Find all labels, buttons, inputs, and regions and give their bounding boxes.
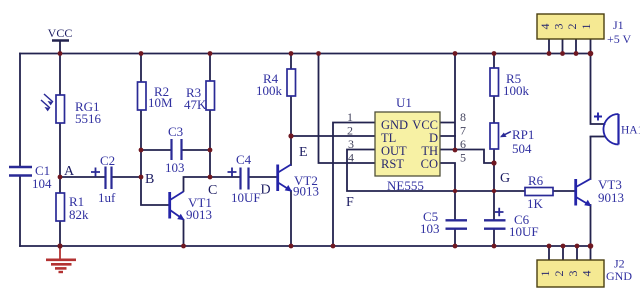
wire pin 1 GND to bottom rail <box>333 123 375 247</box>
svg-text:D: D <box>261 183 271 198</box>
svg-text:C: C <box>208 183 217 198</box>
svg-text:R6: R6 <box>528 173 544 188</box>
svg-text:OUT: OUT <box>381 144 407 158</box>
wire pin 3 OUT to node F rail <box>347 150 525 192</box>
capacitor C4 <box>228 152 261 205</box>
svg-text:U1: U1 <box>396 95 412 110</box>
photoresistor RG1 <box>41 94 102 126</box>
svg-text:B: B <box>145 172 154 187</box>
wire VT1 emitter down <box>183 220 185 246</box>
svg-text:103: 103 <box>165 160 185 175</box>
svg-text:RST: RST <box>381 157 404 171</box>
wire bottom rail <box>20 245 591 247</box>
svg-text:10UF: 10UF <box>231 190 261 205</box>
wire pin 8 VCC stub and riser <box>440 54 455 151</box>
wire VCC stub <box>59 41 61 54</box>
svg-text:4: 4 <box>580 271 594 277</box>
wire speaker feed from top rail <box>591 54 605 125</box>
wire R3 column to node C <box>209 54 211 178</box>
svg-text:5: 5 <box>460 151 466 165</box>
svg-text:TH: TH <box>421 144 438 158</box>
svg-text:504: 504 <box>512 141 532 156</box>
capacitor C2 <box>91 153 116 205</box>
svg-text:2: 2 <box>347 124 353 138</box>
wire speaker lower lead <box>591 136 605 138</box>
resistor R1 <box>56 193 89 222</box>
wire VT3 emitter down <box>590 205 592 246</box>
resistor R4 <box>256 69 296 98</box>
svg-text:G: G <box>500 171 510 186</box>
svg-text:TL: TL <box>381 131 396 145</box>
svg-text:103: 103 <box>420 221 440 236</box>
wire pin 6 TH step <box>440 150 494 164</box>
svg-text:A: A <box>64 164 75 179</box>
resistor R2 <box>138 82 174 110</box>
wire top rail <box>20 53 591 55</box>
wire C5 column <box>454 191 456 246</box>
svg-text:7: 7 <box>460 124 466 138</box>
svg-text:10M: 10M <box>148 95 173 110</box>
wire R6 to VT3 base <box>553 190 574 192</box>
svg-text:NE555: NE555 <box>387 178 424 193</box>
svg-text:9013: 9013 <box>293 184 319 199</box>
svg-text:9013: 9013 <box>598 190 624 205</box>
svg-text:VCC: VCC <box>48 26 73 40</box>
svg-text:J1: J1 <box>613 18 624 32</box>
wire node E to pin 2 <box>291 135 375 137</box>
svg-text:8: 8 <box>460 110 466 124</box>
wire R2 column <box>140 54 142 151</box>
potentiometer RP1 <box>490 123 534 156</box>
svg-text:GND: GND <box>381 118 408 132</box>
wire J1 pin stubs <box>549 39 591 54</box>
wire RG1 column <box>59 54 61 178</box>
wire pin 4 RST to top rail <box>319 54 376 164</box>
connector J2 <box>537 257 632 288</box>
op-amp U1 (NE555 timer block) <box>375 95 440 193</box>
svg-text:2: 2 <box>565 24 579 30</box>
svg-text:C2: C2 <box>100 153 115 168</box>
wire R5 RP1 column <box>493 54 495 164</box>
svg-text:10UF: 10UF <box>509 224 539 239</box>
svg-text:9013: 9013 <box>186 207 212 222</box>
resistor R3 <box>184 81 215 112</box>
capacitor C6 <box>484 208 539 239</box>
svg-text:47K: 47K <box>184 97 207 112</box>
svg-text:GND: GND <box>606 269 632 283</box>
transistor VT1 <box>170 192 212 223</box>
wire pin 5 CO down <box>440 163 455 191</box>
wire VT2 emitter down <box>290 191 292 246</box>
wire J2 pin stubs <box>549 246 591 260</box>
svg-text:104: 104 <box>32 176 52 191</box>
wire pin 7 stub <box>440 135 455 137</box>
wire VT1 collector to node C <box>184 177 211 191</box>
wire node C to C4 to VT2 base <box>210 176 277 178</box>
svg-text:5516: 5516 <box>75 111 102 126</box>
svg-text:VCC: VCC <box>412 118 438 132</box>
svg-text:HA1: HA1 <box>621 125 640 137</box>
svg-text:100k: 100k <box>256 83 283 98</box>
svg-text:4: 4 <box>348 151 354 165</box>
wire A to C2 to B <box>60 176 141 178</box>
svg-text:1: 1 <box>579 24 593 30</box>
svg-text:2: 2 <box>552 271 566 277</box>
wire C3 horizontal <box>141 149 210 151</box>
svg-text:C4: C4 <box>236 152 252 167</box>
svg-text:CO: CO <box>421 157 438 171</box>
wire R1 column <box>59 177 61 246</box>
svg-text:C3: C3 <box>168 124 183 139</box>
svg-text:3: 3 <box>566 271 580 277</box>
svg-text:1: 1 <box>538 271 552 277</box>
wire R4 column / node E <box>290 54 292 137</box>
capacitor C3 <box>165 124 185 175</box>
svg-text:6: 6 <box>460 137 466 151</box>
transistor VT3 <box>576 177 624 206</box>
svg-text:RP1: RP1 <box>512 127 534 142</box>
connector J1 <box>537 14 632 46</box>
svg-text:100k: 100k <box>503 83 530 98</box>
svg-text:3: 3 <box>552 24 566 30</box>
capacitor C1 <box>9 163 52 191</box>
svg-text:1K: 1K <box>527 196 544 211</box>
power VCC <box>48 26 73 41</box>
wire node G / C6 column <box>493 163 495 246</box>
capacitor C5 <box>420 209 467 236</box>
svg-text:3: 3 <box>348 137 354 151</box>
resistor R6 <box>525 173 553 211</box>
svg-text:1uf: 1uf <box>98 190 116 205</box>
svg-text:4: 4 <box>538 24 552 30</box>
svg-text:E: E <box>299 145 308 160</box>
speaker HA1 <box>594 113 640 145</box>
ground <box>46 248 76 273</box>
transistor VT2 <box>278 165 319 199</box>
svg-text:F: F <box>346 195 354 210</box>
wire VT3 collector up to speaker <box>590 137 592 179</box>
svg-text:82k: 82k <box>69 207 89 222</box>
resistor R5 <box>490 68 530 98</box>
svg-text:+5 V: +5 V <box>607 32 632 46</box>
wire VT2 collector <box>290 136 292 165</box>
wire B column to VT1 base <box>141 150 169 205</box>
svg-text:D: D <box>429 131 438 145</box>
svg-text:1: 1 <box>347 110 353 124</box>
wire left column (through C1) <box>19 54 21 247</box>
